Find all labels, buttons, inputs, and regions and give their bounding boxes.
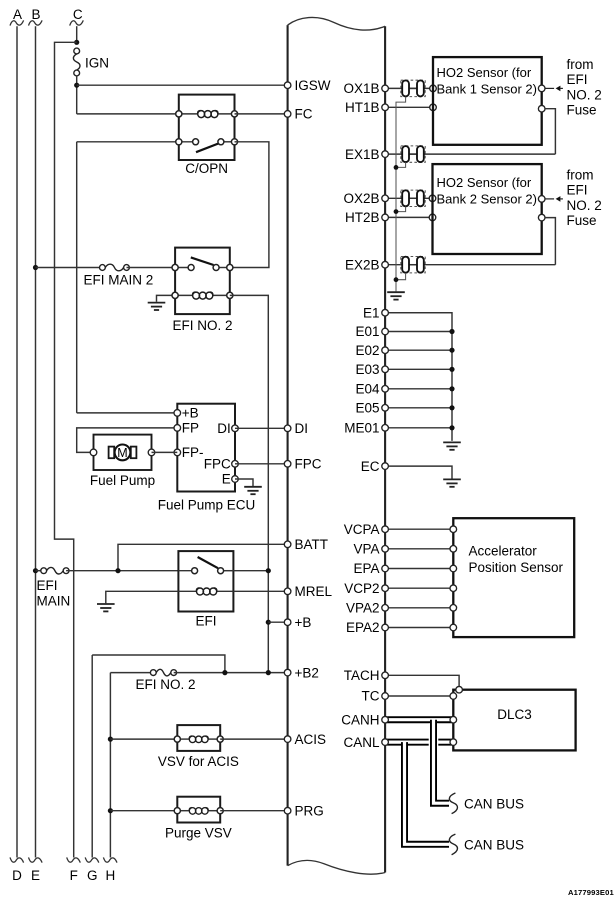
vsv ACIS coil: [189, 736, 208, 743]
dlc3 DLC3 box: [453, 690, 575, 751]
ground fuel pump ECU E: [244, 487, 262, 494]
wire CAN BUS branch 2 (from CANL): [405, 742, 450, 844]
pin E04 ECM: [382, 386, 389, 393]
wire fuel pump to FP-: [152, 451, 178, 453]
node junction B EFI MAIN 2: [33, 265, 38, 270]
wire HT1B line: [385, 106, 433, 108]
wire rail G break bottom: [85, 857, 99, 862]
connector OX1B shielded: [401, 80, 425, 96]
wire DI line: [235, 427, 288, 429]
svg-text:+B2: +B2: [295, 665, 319, 680]
wire HO2-1 heater return path: [545, 109, 555, 154]
fuse IGN: [74, 48, 80, 54]
node junction E05: [449, 405, 454, 410]
svg-text:Position Sensor: Position Sensor: [469, 560, 564, 575]
motor fuel pump M circle: [115, 445, 131, 461]
svg-text:TC: TC: [362, 689, 380, 704]
wire FPC line: [235, 463, 288, 465]
wire EFI MAIN 2 fuse to relay: [127, 267, 176, 269]
pin PRG ECM: [284, 807, 291, 814]
svg-text:IGN: IGN: [85, 55, 109, 70]
svg-text:C: C: [73, 7, 83, 22]
relay C/OPN switch contact right: [218, 139, 224, 145]
fuse EFI MAIN 2: [100, 265, 106, 271]
wire TC line: [385, 695, 453, 697]
connector EX2B shielded: [401, 257, 425, 273]
node junction E04: [449, 386, 454, 391]
connector EX1B shielded: [401, 146, 425, 162]
svg-text:+B: +B: [182, 405, 199, 420]
wire rail B vertical: [35, 26, 37, 857]
wire EPA line: [385, 568, 453, 570]
wire +B line: [268, 621, 287, 623]
svg-text:Bank 2 Sensor 2): Bank 2 Sensor 2): [437, 191, 537, 206]
svg-text:Accelerator: Accelerator: [469, 544, 538, 559]
svg-text:HO2 Sensor (for: HO2 Sensor (for: [437, 175, 532, 190]
relay C/OPN switch terminal left: [176, 139, 182, 145]
relay C/OPN switch blade: [196, 144, 218, 153]
pin HO2-2 fuse terminal: [538, 196, 545, 203]
svg-text:EC: EC: [361, 459, 380, 474]
wire E02 line: [385, 349, 452, 351]
wire C/OPN switch left line: [77, 141, 179, 143]
svg-text:NO. 2: NO. 2: [567, 198, 602, 213]
svg-text:Fuel Pump ECU: Fuel Pump ECU: [158, 497, 256, 512]
wire rail C top segment: [76, 26, 78, 42]
wire B to EFI MAIN 2 fuse: [36, 267, 103, 269]
svg-text:CANL: CANL: [343, 735, 380, 750]
wire rail G vertical: [91, 655, 93, 858]
node junction +B2 vertical: [266, 670, 271, 675]
svg-text:H: H: [106, 868, 116, 883]
ecm ECM left edge: [287, 25, 289, 866]
wire ACIS line right: [220, 738, 287, 740]
wire E1 line: [385, 313, 452, 441]
node junction drain EX1B: [394, 165, 399, 170]
wire EX1B line: [385, 153, 555, 155]
wire shield drain EX2B: [396, 273, 406, 280]
relay EFI NO.2 coil terminal left: [172, 292, 178, 298]
svg-text:EPA: EPA: [353, 561, 379, 576]
svg-text:VCP2: VCP2: [344, 581, 379, 596]
wire CANH double line: [385, 716, 453, 723]
node junction BATT tap: [115, 568, 120, 573]
svg-text:CAN BUS: CAN BUS: [464, 796, 524, 811]
node junction E03: [449, 367, 454, 372]
ecm ECM top wavy edge: [288, 17, 386, 30]
pin HO2-2 heater return: [538, 214, 545, 221]
wire E05 line: [385, 407, 452, 409]
svg-text:EFI NO. 2: EFI NO. 2: [172, 318, 232, 333]
pin ACIS ECM: [284, 736, 291, 743]
svg-text:from: from: [567, 57, 594, 72]
svg-text:Bank 1 Sensor 2): Bank 1 Sensor 2): [437, 81, 537, 96]
pin EPA ECM: [382, 565, 389, 572]
pin Purge VSV left: [174, 808, 180, 814]
wire VCPA line: [385, 528, 453, 530]
wire IGSW line: [77, 84, 288, 86]
node junction EFI switch vertical: [266, 568, 271, 573]
pin +B fuel pump ECU: [174, 410, 181, 417]
wire B to EFI MAIN fuse: [36, 570, 44, 572]
wire G bypass line: [92, 655, 225, 673]
pin VCPA ECM: [382, 526, 389, 533]
wire rail B break top: [29, 20, 43, 25]
node junction ME01: [449, 425, 454, 430]
pin OX2B ECM: [382, 195, 389, 202]
pin OX1B ECM: [382, 85, 389, 92]
sensor Accelerator Position Sensor box: [453, 518, 574, 637]
node junction drain OX2B: [394, 209, 399, 214]
svg-text:FP-: FP-: [182, 445, 204, 460]
pin E fuel pump ECU: [232, 476, 239, 483]
svg-text:PRG: PRG: [295, 803, 324, 818]
relay C/OPN switch terminal right: [231, 139, 237, 145]
wire rail A break top: [10, 20, 24, 25]
ground EFI NO.2 coil: [148, 303, 166, 310]
svg-text:HT1B: HT1B: [345, 100, 380, 115]
svg-text:EFI: EFI: [567, 183, 588, 198]
svg-text:G: G: [87, 868, 98, 883]
wire EFI NO.2 coil row inner: [175, 294, 193, 296]
pin CANH ECM: [382, 716, 389, 723]
wire OX2B line: [385, 197, 432, 199]
ground E01-ME01: [443, 442, 461, 449]
relay EFI switch contact left: [192, 568, 198, 574]
svg-text:FC: FC: [295, 107, 313, 122]
relay EFI NO.2 switch contact left: [188, 265, 194, 271]
pin OX2B sensor side: [429, 195, 436, 202]
svg-text:E02: E02: [355, 343, 379, 358]
pin DI fuel pump ECU: [232, 425, 239, 432]
wire C/OPN switch vertical to fuel pump ECU: [76, 142, 78, 413]
wire EFI switch to vertical: [233, 570, 268, 572]
pin FC ECM: [284, 111, 291, 118]
svg-text:F: F: [70, 868, 78, 883]
wire branch C to x54: [55, 42, 77, 857]
svg-text:ME01: ME01: [344, 421, 379, 436]
pin Purge VSV right: [217, 808, 223, 814]
svg-text:EPA2: EPA2: [346, 620, 380, 635]
svg-text:EFI MAIN 2: EFI MAIN 2: [84, 272, 154, 287]
svg-text:TACH: TACH: [344, 668, 380, 683]
svg-text:EFI: EFI: [37, 578, 58, 593]
node junction E01: [449, 329, 454, 334]
pin HT2B ECM: [382, 214, 389, 221]
wire arrow from EFI NO.2 fuse (2): [545, 198, 554, 200]
wire CANL double line: [385, 739, 453, 746]
wire shield drain OX1B: [396, 97, 406, 292]
wire PRG line right: [220, 810, 287, 812]
pin E03 ECM: [382, 366, 389, 373]
pin HT1B sensor side: [430, 104, 437, 111]
wire shield drain OX2B: [396, 207, 406, 212]
pin CANL ECM: [382, 739, 389, 746]
svg-text:HT2B: HT2B: [345, 210, 380, 225]
svg-text:Purge VSV: Purge VSV: [165, 826, 232, 841]
relay C/OPN switch contact left: [193, 139, 199, 145]
relay C/OPN coil terminal right: [231, 111, 237, 117]
node junction C branch: [74, 40, 79, 45]
svg-text:MREL: MREL: [295, 584, 333, 599]
svg-text:DI: DI: [295, 421, 309, 436]
pin HO2-1 heater return: [538, 105, 545, 112]
relay EFI NO.2 switch terminal left: [172, 264, 178, 270]
pin BATT ECM: [284, 541, 291, 548]
relay EFI switch blade: [198, 557, 218, 568]
wire CAN BUS branch 1 (from CANH): [434, 723, 450, 803]
wire VPA2 line: [385, 607, 453, 609]
pin EC ECM: [382, 463, 389, 470]
pin CANL DLC3: [450, 739, 457, 746]
pin VPA ECM: [382, 546, 389, 553]
svg-text:M: M: [117, 446, 127, 460]
wire HO2-2 heater return path: [545, 218, 555, 265]
svg-text:from: from: [567, 168, 594, 183]
pin EPA sensor side: [450, 565, 457, 572]
wire FC line right: [235, 113, 288, 115]
wire E01 line: [385, 331, 452, 333]
pin EX1B ECM: [382, 151, 389, 158]
vsv VSV for ACIS box: [177, 725, 220, 751]
sensor HO2 Sensor Bank2 box: [433, 164, 542, 254]
svg-text:EX1B: EX1B: [345, 147, 380, 162]
connector OX2B shielded: [401, 190, 425, 206]
node junction PRG tap: [108, 808, 113, 813]
svg-text:VSV for ACIS: VSV for ACIS: [158, 754, 239, 769]
ground EC: [443, 479, 461, 486]
wire rail A break bottom: [10, 857, 24, 862]
svg-text:OX2B: OX2B: [343, 191, 379, 206]
motor fuel pump brush left: [109, 447, 115, 459]
pin VSV ACIS right: [217, 736, 223, 742]
pin fuel pump right: [148, 449, 155, 456]
sensor HO2 Sensor Bank1 box: [433, 57, 542, 145]
ecm ECM right edge: [384, 26, 386, 872]
relay EFI NO.2 box: [175, 248, 230, 315]
node junction IGSW: [74, 83, 79, 88]
svg-text:ACIS: ACIS: [295, 732, 327, 747]
pin EPA2 sensor side: [450, 624, 457, 631]
pin IGSW ECM: [284, 82, 291, 89]
wire rail F break bottom: [67, 857, 81, 862]
svg-text:IGSW: IGSW: [295, 78, 331, 93]
wire EFI NO.2 coil right vertical to +B/+B2: [230, 295, 268, 672]
svg-text:VPA2: VPA2: [346, 601, 380, 616]
relay EFI NO.2 coil terminal right: [227, 292, 233, 298]
pin E01 ECM: [382, 328, 389, 335]
pin TC DLC3: [450, 693, 457, 700]
node junction ACIS tap: [108, 737, 113, 742]
pin FPC fuel pump ECU: [232, 461, 239, 468]
relay EFI NO.2 switch contact right: [213, 265, 219, 271]
svg-text:D: D: [12, 868, 22, 883]
svg-text:Fuel Pump: Fuel Pump: [90, 473, 155, 488]
wire rail C break top: [70, 20, 84, 25]
relay EFI NO.2 switch blade: [191, 257, 214, 265]
svg-text:DI: DI: [217, 421, 231, 436]
pin +B2 ECM: [284, 669, 291, 676]
node junction +B2 bypass: [222, 670, 227, 675]
wire shield drain EX1B: [396, 162, 406, 167]
pin CANH DLC3: [450, 716, 457, 723]
svg-text:HO2 Sensor (for: HO2 Sensor (for: [437, 65, 532, 80]
relay C/OPN coil terminal left: [176, 111, 182, 117]
pin E02 ECM: [382, 347, 389, 354]
pin MREL ECM: [284, 588, 291, 595]
pin VPA2 ECM: [382, 605, 389, 612]
fuse EFI NO. 2 (lower): [150, 670, 156, 676]
pin VPA2 sensor side: [450, 605, 457, 612]
svg-text:B: B: [31, 7, 40, 22]
svg-text:E03: E03: [355, 362, 379, 377]
svg-text:VPA: VPA: [353, 542, 379, 557]
svg-text:E: E: [222, 472, 231, 487]
wire HT2B line: [385, 216, 432, 218]
wire rail A vertical: [16, 26, 18, 857]
svg-text:DLC3: DLC3: [497, 707, 532, 722]
svg-text:+B: +B: [295, 615, 312, 630]
wire fuel pump ECU FP to pump: [77, 428, 178, 453]
svg-text:E05: E05: [355, 401, 379, 416]
wire rail B break bottom: [29, 857, 43, 862]
wire C/OPN coil row inner: [179, 113, 198, 115]
wire EPA2 line: [385, 627, 453, 629]
ground EFI relay coil: [97, 604, 115, 611]
svg-text:EFI NO. 2: EFI NO. 2: [136, 677, 196, 692]
ground HO2 shield: [387, 292, 405, 299]
node junction B EFI MAIN: [33, 568, 38, 573]
ecu Fuel Pump ECU box: [177, 404, 235, 492]
svg-text:E1: E1: [363, 305, 380, 320]
pin TACH ECM: [382, 672, 389, 679]
wire BATT line: [118, 544, 288, 570]
pin E1 ECM: [382, 309, 389, 316]
svg-text:E: E: [31, 868, 40, 883]
wire E04 line: [385, 388, 452, 390]
wire EFI MAIN fuse to relay: [66, 570, 178, 572]
svg-text:OX1B: OX1B: [343, 81, 379, 96]
wire ME01 line: [385, 427, 452, 429]
pin TC ECM: [382, 693, 389, 700]
wire TACH line: [385, 675, 459, 686]
pin E05 ECM: [382, 405, 389, 412]
wire VCP2 line: [385, 587, 453, 589]
relay C/OPN coil: [198, 111, 218, 118]
wire E1 line: [385, 312, 452, 314]
wire EFI coil row inner: [178, 590, 197, 592]
pin HT2B sensor side: [429, 214, 436, 221]
pin OX1B sensor side: [430, 85, 437, 92]
svg-text:BATT: BATT: [295, 537, 329, 552]
svg-text:EFI: EFI: [567, 72, 588, 87]
wire VSV ACIS inner: [177, 738, 190, 740]
wire EC line: [385, 466, 452, 479]
vsv Purge coil: [189, 808, 208, 815]
wire CAN BUS break 1: [449, 793, 457, 814]
svg-text:A: A: [13, 7, 22, 22]
pin TACH DLC3: [456, 686, 463, 693]
svg-text:FPC: FPC: [204, 456, 231, 471]
wire EX2B line: [385, 264, 555, 266]
wire EFI coil ground line: [106, 591, 179, 603]
svg-text:Fuse: Fuse: [567, 103, 597, 118]
wire +B2 line: [110, 672, 153, 674]
wire E to ground: [235, 479, 253, 486]
svg-text:A177993E01: A177993E01: [568, 888, 614, 897]
pin EPA2 ECM: [382, 624, 389, 631]
wire FC line left: [77, 113, 179, 115]
relay EFI box: [178, 551, 233, 611]
wire C/OPN switch row inner: [179, 141, 196, 143]
svg-text:Fuse: Fuse: [567, 213, 597, 228]
pin FPC ECM: [284, 461, 291, 468]
svg-text:NO. 2: NO. 2: [567, 87, 602, 102]
pin HT1B ECM: [382, 104, 389, 111]
pin FP- fuel pump ECU: [174, 449, 181, 456]
relay EFI coil: [196, 588, 216, 595]
wire PRG line left: [110, 810, 177, 812]
svg-text:E01: E01: [355, 324, 379, 339]
svg-text:CAN BUS: CAN BUS: [464, 837, 524, 852]
pin VSV ACIS left: [174, 736, 180, 742]
pin HO2-1 fuse terminal: [538, 85, 545, 92]
svg-text:EX2B: EX2B: [345, 257, 380, 272]
pin DI ECM: [284, 425, 291, 432]
ecm ECM bottom wavy edge: [288, 860, 386, 874]
svg-text:E04: E04: [355, 382, 380, 397]
relay EFI switch contact right: [218, 568, 224, 574]
svg-text:C/OPN: C/OPN: [185, 161, 228, 176]
pin +B ECM: [284, 619, 291, 626]
relay EFI NO.2 switch terminal right: [227, 264, 233, 270]
motor Fuel Pump box: [94, 435, 152, 470]
pin VCP2 ECM: [382, 585, 389, 592]
svg-text:VCPA: VCPA: [344, 522, 380, 537]
pin VCP2 sensor side: [450, 585, 457, 592]
svg-text:CANH: CANH: [341, 712, 379, 727]
wire rail H vertical: [109, 673, 111, 858]
pin fuel pump left: [90, 449, 97, 456]
wire MREL line: [233, 590, 287, 592]
pin VPA sensor side: [450, 546, 457, 553]
wire arrow from EFI NO.2 fuse (1): [545, 87, 554, 89]
vsv Purge VSV box: [177, 797, 220, 823]
wire EFI NO.2 switch row inner: [175, 267, 191, 269]
pin FP fuel pump ECU: [174, 425, 181, 432]
node junction drain EX2B: [394, 277, 399, 282]
svg-text:FPC: FPC: [295, 457, 322, 472]
svg-text:EFI: EFI: [195, 614, 216, 629]
wire rail H break bottom: [103, 857, 117, 862]
wire C fuse to FC corner: [76, 76, 78, 114]
wire VSV Purge inner: [177, 810, 190, 812]
wire fuse to +B2: [174, 672, 288, 674]
pin VCPA sensor side: [450, 526, 457, 533]
node junction +B: [266, 620, 271, 625]
wire VPA line: [385, 548, 453, 550]
wire CAN BUS break 2: [449, 834, 457, 855]
wire C/OPN switch right to EFI NO.2: [230, 142, 269, 268]
svg-text:MAIN: MAIN: [37, 593, 71, 608]
svg-text:FP: FP: [182, 420, 199, 435]
node junction E02: [449, 348, 454, 353]
pin ME01 ECM: [382, 425, 389, 432]
fuse EFI MAIN: [41, 568, 47, 574]
wire ACIS line left: [110, 738, 177, 740]
wire E03 line: [385, 368, 452, 370]
wire OX1B line: [385, 87, 433, 89]
